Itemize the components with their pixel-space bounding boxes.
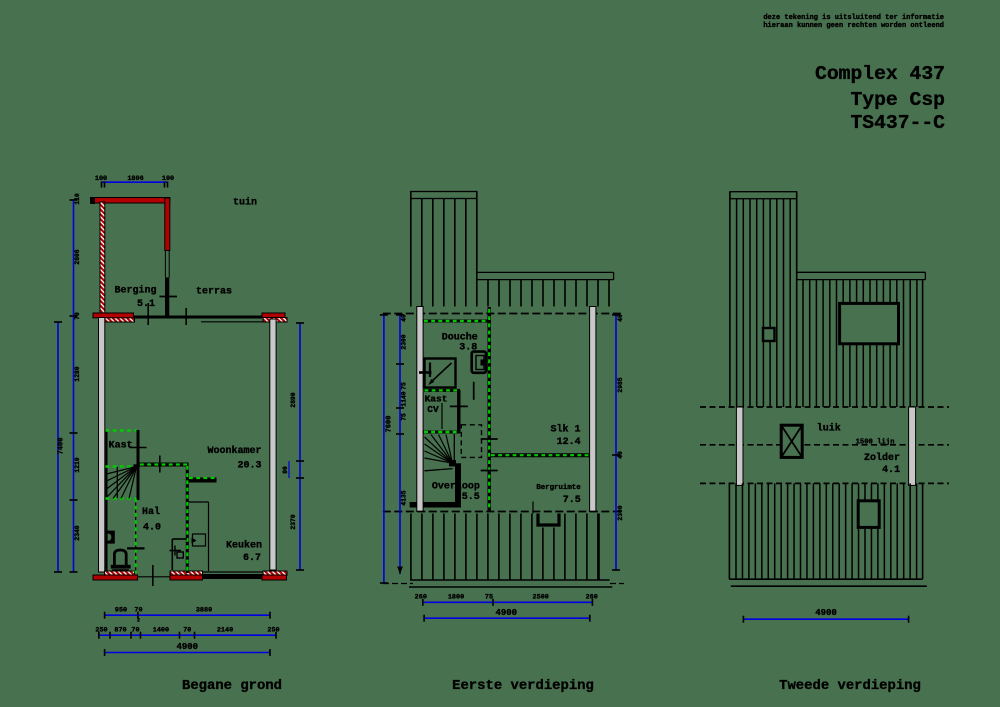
svg-text:250: 250 [267,627,279,635]
svg-text:4900: 4900 [815,608,837,618]
svg-text:870: 870 [114,627,126,635]
svg-text:40: 40 [617,314,624,322]
svg-text:Begane grond: Begane grond [182,678,282,694]
svg-text:Zolder: Zolder [864,452,900,464]
svg-text:950: 950 [115,607,127,615]
svg-text:7.5: 7.5 [563,495,581,506]
svg-text:1500 lijn: 1500 lijn [856,438,895,446]
svg-text:Tweede verdieping: Tweede verdieping [779,678,921,694]
svg-text:75: 75 [485,594,493,602]
svg-text:1140: 1140 [401,391,408,406]
svg-text:Eerste verdieping: Eerste verdieping [452,678,594,694]
svg-text:Douche: Douche [442,331,478,343]
svg-text:2890: 2890 [290,392,297,407]
svg-text:Hal: Hal [142,506,160,518]
svg-text:Kast: Kast [109,441,133,452]
svg-text:Kast: Kast [425,394,448,405]
svg-text:Type Csp: Type Csp [850,89,945,111]
svg-text:40: 40 [401,314,408,322]
svg-text:3880: 3880 [196,607,212,615]
svg-text:Slk 1: Slk 1 [550,424,580,436]
svg-text:luik: luik [817,423,841,435]
svg-text:2140: 2140 [217,627,233,635]
svg-text:12.4: 12.4 [557,437,581,448]
svg-text:110: 110 [74,193,81,205]
svg-text:4.1: 4.1 [882,465,900,476]
svg-text:Bergruimte: Bergruimte [536,484,581,492]
svg-text:90: 90 [282,466,289,474]
svg-text:100: 100 [95,175,107,183]
svg-text:7400: 7400 [58,438,66,455]
svg-text:Keuken: Keuken [226,540,262,552]
svg-text:75: 75 [401,382,408,390]
svg-text:5.1: 5.1 [137,299,155,310]
svg-text:1400: 1400 [153,627,169,635]
svg-text:4.0: 4.0 [143,523,161,534]
svg-text:Complex 437: Complex 437 [815,63,945,85]
svg-text:2806: 2806 [74,249,81,264]
svg-text:6.7: 6.7 [243,553,261,564]
svg-text:260: 260 [586,594,598,602]
svg-text:75: 75 [401,413,408,421]
svg-text:2300: 2300 [617,505,624,520]
svg-text:7600: 7600 [386,416,394,433]
svg-text:100: 100 [162,175,174,183]
svg-text:5.5: 5.5 [462,492,480,503]
svg-text:2985: 2985 [617,377,624,392]
svg-text:250: 250 [95,627,107,635]
svg-text:deze tekening is uitsluitend t: deze tekening is uitsluitend ter informa… [763,14,944,22]
svg-text:2500: 2500 [533,594,549,602]
svg-text:2370: 2370 [290,514,297,529]
svg-text:Berging: Berging [114,285,156,297]
svg-text:1800: 1800 [448,594,464,602]
svg-text:terras: terras [196,287,232,298]
svg-text:hieraan kunnen geen rechten wo: hieraan kunnen geen rechten worden ontle… [763,22,944,30]
svg-text:tuin: tuin [233,197,257,209]
svg-text:2300: 2300 [401,334,408,349]
svg-text:70: 70 [131,627,139,635]
svg-text:70: 70 [183,627,191,635]
svg-text:4900: 4900 [176,642,198,652]
svg-text:70: 70 [134,607,142,615]
svg-text:1280: 1280 [74,366,81,381]
svg-text:4135: 4135 [401,490,408,505]
svg-text:260: 260 [415,594,427,602]
svg-text:TS437--C: TS437--C [850,112,945,134]
svg-text:70: 70 [74,312,81,320]
svg-text:40: 40 [617,451,624,459]
svg-text:1210: 1210 [74,457,81,472]
svg-text:Woonkamer: Woonkamer [207,445,261,457]
svg-text:20.3: 20.3 [237,461,261,472]
svg-text:CV: CV [427,404,439,415]
svg-text:2: 2 [137,618,140,624]
svg-text:3.8: 3.8 [459,343,477,354]
svg-text:2340: 2340 [74,525,81,540]
svg-text:1806: 1806 [127,175,143,183]
svg-text:4900: 4900 [495,608,517,618]
